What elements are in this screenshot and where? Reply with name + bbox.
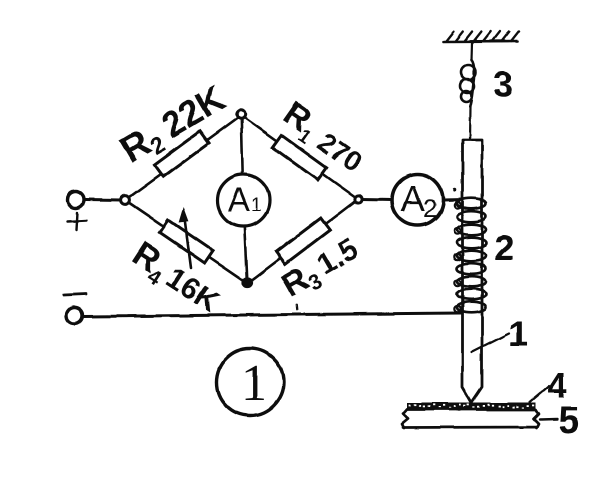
- svg-text:16K: 16K: [160, 261, 224, 319]
- link ceiling to spring: [470, 42, 473, 61]
- link spring to rod: [468, 107, 471, 140]
- figure number circle: [217, 349, 284, 416]
- node top vertex: [237, 110, 245, 118]
- coil 2 turns: [454, 198, 486, 313]
- svg-text:1: 1: [251, 195, 262, 216]
- label R2 22K: [113, 77, 234, 174]
- rod / core 1: [463, 140, 483, 403]
- resistor R1 body: [272, 135, 326, 180]
- svg-text:3: 3: [493, 64, 513, 105]
- wire ammeter A2 to coil rod: [443, 198, 464, 202]
- wire lower-right diagonal (bottom junction to right node): [248, 199, 359, 283]
- svg-text:A: A: [228, 181, 250, 218]
- wire upper-left diagonal (left node to top node): [126, 116, 242, 201]
- resistor R3 body: [276, 218, 330, 264]
- svg-text:2: 2: [423, 195, 437, 223]
- ammeter A1: [218, 175, 270, 227]
- node left vertex: [121, 196, 130, 205]
- resistor R2 body: [154, 131, 208, 176]
- contact plate 4 (hatched strip): [407, 403, 536, 410]
- label R1 270: [274, 94, 372, 180]
- svg-text:5: 5: [558, 400, 579, 442]
- arrow of variable resistor R4: [185, 222, 191, 268]
- terminal minus: [67, 308, 83, 324]
- stray ink dot near A2: [453, 188, 457, 192]
- label R3 1.5: [275, 231, 367, 308]
- node right vertex: [355, 195, 362, 202]
- wire upper-right diagonal (top node to right node): [241, 116, 358, 200]
- tick on bottom wire: [296, 305, 299, 310]
- plate 5 (base with broken ends): [402, 410, 539, 429]
- svg-text:2: 2: [494, 227, 514, 268]
- junction bottom vertex (solder dot): [242, 277, 253, 288]
- bottom wire from minus terminal to coil: [83, 313, 461, 317]
- dash before label 5: [540, 418, 557, 421]
- resistor R4 body (variable): [160, 220, 213, 263]
- wire right node to ammeter A2: [361, 198, 392, 202]
- label R4 16K: [123, 234, 228, 323]
- svg-text:1: 1: [241, 355, 267, 412]
- svg-text:1: 1: [508, 313, 528, 354]
- wire ammeter A1 to bottom junction: [245, 226, 248, 280]
- wire top node to ammeter A1: [241, 117, 242, 176]
- wire from + terminal to left node: [86, 198, 123, 202]
- spring 3: [460, 60, 476, 107]
- leader line for label 1: [472, 333, 510, 352]
- wire lower-left diagonal (left node to bottom junction): [126, 200, 248, 283]
- svg-text:A: A: [401, 178, 425, 219]
- minus sign: [64, 294, 86, 295]
- plus sign: [68, 212, 87, 230]
- terminal plus: [68, 192, 84, 208]
- fixed support (hatched ceiling): [444, 32, 519, 42]
- leader line for label 4: [530, 386, 549, 402]
- ammeter A2: [392, 175, 443, 226]
